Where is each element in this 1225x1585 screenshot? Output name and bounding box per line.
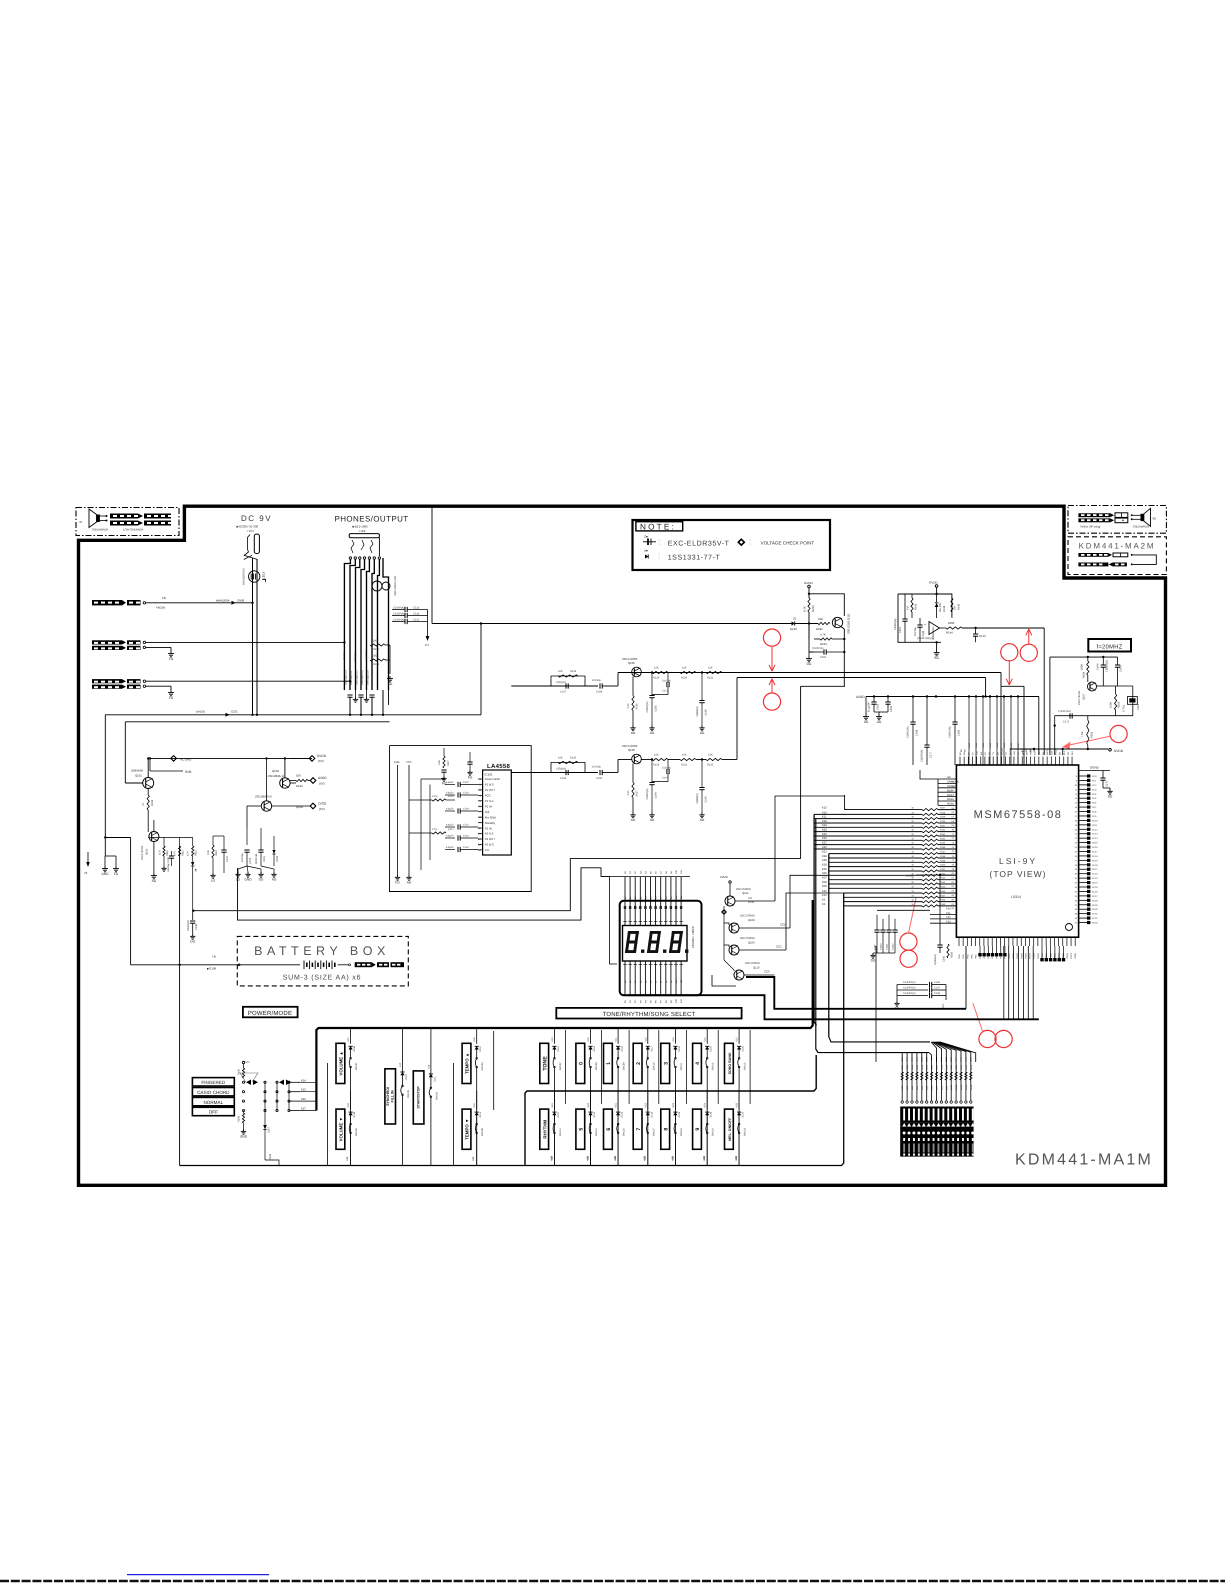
svg-text:10K: 10K — [558, 757, 563, 760]
key switch SW115 (5) — [576, 1109, 585, 1149]
svg-text:GVDD: GVDD — [804, 581, 814, 585]
IC LA4558 body — [483, 770, 512, 855]
svg-text:C151: C151 — [975, 742, 978, 748]
wire key feeder — [658, 1030, 660, 1104]
svg-text:R158: R158 — [940, 855, 946, 858]
cap C171 bridge — [667, 673, 669, 683]
svg-text:FINGERED: FINGERED — [201, 1080, 225, 1085]
wire K10 — [814, 813, 922, 815]
svg-text:R111: R111 — [182, 850, 185, 856]
schematic border frame — [79, 506, 1166, 1185]
resistor R129 — [652, 758, 668, 760]
svg-text:MD2: MD2 — [947, 798, 953, 801]
transistor Q103 — [280, 778, 290, 788]
caps C313 C314 C315 — [392, 609, 405, 611]
svg-text:SW110: SW110 — [652, 1062, 655, 1070]
svg-text:C(UHF0(A): C(UHF0(A) — [903, 992, 916, 995]
svg-text:VOLUME ▼: VOLUME ▼ — [339, 1117, 344, 1141]
svg-text:FG: FG — [114, 872, 119, 876]
svg-text:KO4: KO4 — [1092, 793, 1097, 796]
svg-text:PACE#: PACE# — [947, 785, 956, 788]
wire mid rail — [148, 837, 193, 839]
svg-text:KO21: KO21 — [1092, 868, 1098, 871]
svg-text:R166: R166 — [940, 890, 946, 893]
svg-text:P1 IN: P1 IN — [485, 804, 492, 808]
svg-text:K28: K28 — [822, 855, 827, 858]
wire speaker loop — [1133, 555, 1156, 565]
svg-text:R134: R134 — [269, 1153, 272, 1160]
svg-text:D109: D109 — [353, 1111, 356, 1117]
wire B display feed — [238, 868, 610, 920]
key switch SW109 (1) — [604, 1043, 613, 1083]
svg-text:SUM-3 (SIZE AA) x6: SUM-3 (SIZE AA) x6 — [283, 974, 362, 982]
top feeder labels — [968, 695, 970, 697]
svg-text:D133: D133 — [790, 627, 797, 631]
cap C158 — [701, 673, 703, 701]
svg-text:Yellow (SP plug): Yellow (SP plug) — [1080, 525, 1100, 529]
terminal GVDD reset — [935, 585, 938, 588]
svg-text:8.2K: 8.2K — [803, 606, 807, 612]
svg-text:10K: 10K — [558, 670, 563, 673]
svg-text:C315: C315 — [413, 618, 420, 621]
terminal AVDD — [310, 778, 316, 784]
svg-text:4.7K: 4.7K — [187, 851, 190, 856]
svg-text:4.7K: 4.7K — [820, 633, 826, 637]
svg-text:Q108: Q108 — [748, 919, 755, 922]
diode D107 — [264, 1111, 266, 1126]
cap C251 — [873, 697, 875, 703]
svg-text:KO31: KO31 — [1092, 913, 1098, 916]
wire display bottom bus — [628, 995, 1039, 1019]
svg-text:KE5: KE5 — [736, 1102, 739, 1107]
svg-text:Q109: Q109 — [748, 942, 755, 945]
svg-text:KO18: KO18 — [1092, 855, 1098, 858]
cap C170b — [1102, 771, 1104, 779]
svg-text:D108: D108 — [353, 1045, 356, 1051]
svg-text:C167: C167 — [934, 987, 941, 990]
svg-text:C(UHF0(A): C(UHF0(A) — [903, 987, 916, 990]
phone line caps to rail — [347, 694, 352, 696]
svg-text:R142: R142 — [915, 603, 918, 610]
svg-text:D111: D111 — [433, 1076, 436, 1082]
connector resistor array — [901, 1057, 903, 1101]
svg-text:L101: L101 — [262, 572, 266, 579]
resistor R132 — [706, 671, 722, 673]
resistor bias — [632, 783, 634, 798]
key switch SW111 (3) — [661, 1043, 670, 1083]
svg-text:C133: C133 — [463, 835, 469, 838]
ground CN2 — [170, 651, 172, 654]
svg-text:2SC1740SS: 2SC1740SS — [1078, 690, 1081, 705]
svg-text:BY(S)GL: BY(S)GL — [343, 650, 346, 660]
svg-text:2SD1858G,R: 2SD1858G,R — [255, 795, 272, 799]
display face — [623, 926, 688, 962]
jack contact circles — [349, 557, 351, 559]
svg-text:180K: 180K — [1081, 664, 1084, 670]
svg-text:X´TAL: X´TAL — [1123, 704, 1126, 712]
svg-text:6.8μ50: 6.8μ50 — [446, 846, 454, 849]
svg-text:BOW(S)GL: BOW(S)GL — [354, 649, 357, 662]
svg-text:C100P(A): C100P(A) — [393, 606, 405, 609]
transistor Q111 — [832, 617, 842, 627]
svg-text:C172: C172 — [1063, 721, 1070, 724]
wire CN06 to DC line — [146, 602, 253, 604]
svg-text:K27: K27 — [822, 842, 827, 845]
grounds LG GND DG AG — [237, 872, 239, 874]
feedback R129 C137 stage1 — [551, 676, 585, 686]
svg-text:6.8μ50: 6.8μ50 — [446, 824, 454, 827]
svg-text:K10: K10 — [551, 1037, 554, 1042]
terminal DVDD — [309, 756, 315, 762]
svg-text:R223: R223 — [820, 642, 827, 646]
svg-text:7.5K: 7.5K — [1081, 731, 1084, 737]
svg-text:AG: AG — [631, 818, 636, 822]
svg-text:C206: C206 — [820, 656, 827, 659]
svg-text:C170: C170 — [662, 777, 668, 780]
svg-text:K13: K13 — [672, 1037, 675, 1042]
svg-text:GVDD: GVDD — [929, 581, 939, 585]
svg-text:R169: R169 — [940, 903, 946, 906]
wire K17 — [814, 844, 922, 846]
check point circle (opamp wire) — [1020, 644, 1037, 661]
svg-text:C190: C190 — [596, 777, 603, 780]
IC bottom long pins to bus2 — [1003, 946, 1005, 1019]
svg-text:K19: K19 — [822, 824, 827, 827]
IC left upper pins — [938, 778, 956, 780]
key switch SW114 (RHYTHM) — [540, 1109, 549, 1149]
svg-text:KO8: KO8 — [1092, 811, 1097, 814]
svg-text:CASIO CHORD: CASIO CHORD — [197, 1090, 230, 1095]
wire top pin feeders — [968, 697, 970, 766]
cap C164 — [1117, 657, 1119, 665]
connector CN (speaker leads) — [110, 514, 138, 519]
svg-text:C■: C■ — [644, 535, 648, 539]
terminal CVC — [242, 1061, 244, 1063]
svg-text:AG: AG — [407, 880, 412, 884]
svg-text:+B: +B — [212, 955, 216, 959]
svg-text:R195: R195 — [238, 1068, 241, 1075]
svg-text:K08: K08 — [472, 1156, 475, 1161]
wire rotary verticals — [276, 1082, 278, 1110]
svg-text:R109: R109 — [373, 663, 380, 666]
svg-text:K16: K16 — [427, 1064, 430, 1069]
svg-text:R210: R210 — [901, 1064, 904, 1070]
svg-text:R127: R127 — [636, 790, 639, 797]
svg-text:AG: AG — [700, 731, 705, 735]
wire fan to grounds — [238, 866, 247, 872]
svg-text:DA(19): DA(19) — [196, 710, 205, 714]
cap C158 — [701, 760, 703, 788]
svg-text:2.2K: 2.2K — [627, 703, 630, 708]
svg-text:DC 9V: DC 9V — [241, 514, 272, 523]
wire bottom key bus — [180, 1159, 844, 1166]
svg-text:D127: D127 — [742, 1111, 745, 1117]
svg-text:NOTE:: NOTE: — [640, 523, 676, 532]
svg-text:D126: D126 — [710, 1111, 713, 1117]
svg-text:SW116: SW116 — [623, 1128, 626, 1136]
svg-text:K11: K11 — [615, 1037, 618, 1042]
svg-text:K09: K09 — [586, 1155, 589, 1160]
svg-text:C123: C123 — [463, 792, 469, 795]
svg-text:470μ: 470μ — [432, 795, 438, 798]
svg-text:PACE3: PACE3 — [1009, 747, 1012, 755]
svg-text:KO1: KO1 — [1092, 779, 1097, 782]
connector row 1 — [1078, 553, 1108, 557]
svg-text:R132: R132 — [707, 677, 714, 680]
switch position OFF — [192, 1107, 234, 1115]
svg-text:R145: R145 — [296, 784, 303, 788]
svg-text:C(471B): C(471B) — [662, 680, 671, 683]
svg-text:C1310: C1310 — [880, 943, 883, 950]
svg-text:Q105: Q105 — [628, 661, 635, 665]
svg-text:KE2: KE2 — [644, 1102, 647, 1107]
svg-text:AG: AG — [272, 877, 277, 881]
svg-text:Power GND: Power GND — [485, 777, 500, 781]
svg-text:R120: R120 — [448, 795, 454, 798]
display top pins — [624, 877, 626, 926]
check point circles (IC left) — [900, 933, 917, 950]
svg-text:K12: K12 — [736, 1037, 739, 1042]
svg-text:SUB: SUB — [394, 761, 400, 764]
wire bus1 riser — [965, 946, 967, 1009]
wire K16 — [814, 839, 922, 841]
wire aux feeder — [493, 1031, 495, 1110]
wire K20 — [829, 853, 922, 855]
svg-text:K23: K23 — [822, 894, 827, 897]
resistor R204 1M — [1087, 661, 1089, 675]
svg-text:LVDD: LVDD — [720, 875, 729, 879]
svg-text:FB: FB — [162, 596, 166, 600]
wire stage2 base — [617, 760, 619, 773]
svg-text:SQUAWKER: SQUAWKER — [1133, 525, 1149, 529]
svg-text:P26S: P26S — [1066, 953, 1069, 959]
svg-text:KO22: KO22 — [1092, 873, 1098, 876]
svg-text:CC3: CC3 — [764, 970, 770, 974]
svg-text:220Ω: 220Ω — [371, 640, 377, 643]
wire net to Q111 base — [432, 623, 792, 625]
wire K21 — [829, 857, 922, 859]
svg-text:K3: K3 — [822, 903, 826, 906]
note electrolytic symbol — [643, 541, 656, 543]
svg-text:Q102: Q102 — [146, 848, 149, 855]
svg-text:Out: Out — [485, 810, 490, 814]
svg-text:0: 0 — [579, 1062, 585, 1065]
svg-text:K17: K17 — [347, 1037, 350, 1042]
svg-text:R214: R214 — [921, 1064, 924, 1070]
svg-text:R165: R165 — [940, 885, 946, 888]
svg-text:R131: R131 — [681, 764, 688, 767]
svg-text:D1: D1 — [793, 617, 797, 621]
svg-text:P28S: P28S — [1074, 953, 1077, 959]
check diamond Q112 — [722, 910, 726, 914]
svg-text:P20: P20 — [946, 908, 951, 911]
svg-text::: : — [659, 541, 660, 546]
cap C201 — [902, 618, 907, 620]
wire osc bottom — [1054, 716, 1056, 726]
transistor Q109 — [729, 945, 739, 955]
svg-text:Standby: Standby — [485, 821, 496, 825]
svg-text:CC1: CC1 — [780, 923, 786, 927]
svg-text:9: 9 — [695, 1128, 701, 1131]
svg-text:R223: R223 — [965, 1064, 968, 1070]
svg-text:K25: K25 — [822, 833, 827, 836]
svg-text:TEMPO ▲: TEMPO ▲ — [465, 1053, 470, 1074]
key switch SW105 (TEMPO &#9650;) — [462, 1043, 471, 1083]
transistor Q102 — [149, 832, 159, 842]
svg-text:DG: DG — [807, 662, 812, 666]
note check diamond — [738, 539, 744, 545]
resistor R107 — [370, 644, 385, 646]
diode D106 — [191, 862, 194, 866]
svg-text:16V100μ: 16V100μ — [365, 650, 368, 660]
svg-text:K10: K10 — [822, 811, 827, 814]
svg-text:KO6: KO6 — [1092, 802, 1097, 805]
transistor Q108 — [729, 923, 739, 933]
svg-text:P20S: P20S — [1041, 953, 1044, 959]
svg-text:C(471B): C(471B) — [662, 767, 671, 770]
wire KI2 — [844, 901, 922, 903]
fan2 drops — [901, 1053, 903, 1062]
wire fan2 to connector — [816, 1049, 929, 1053]
svg-text:SDP-#2903 L103: SDP-#2903 L103 — [394, 576, 397, 596]
transistor Q101 — [143, 778, 154, 789]
wire K18 — [814, 848, 922, 850]
svg-text:KO12: KO12 — [1092, 828, 1098, 831]
key switch SW117 (7) — [633, 1109, 642, 1149]
svg-text:R129: R129 — [570, 670, 577, 673]
key switch SW116 (6) — [604, 1109, 613, 1149]
transistor Q110 — [734, 970, 744, 980]
svg-text:R150: R150 — [940, 820, 946, 823]
wire stage1 input — [511, 685, 598, 687]
wire right lower pin drop — [875, 946, 877, 1062]
svg-text:D122: D122 — [593, 1111, 596, 1117]
svg-text:LG: LG — [211, 878, 216, 882]
wire key feeder — [601, 1030, 603, 1104]
resistor R109 — [370, 659, 385, 661]
svg-text:VOLUME ▲: VOLUME ▲ — [339, 1051, 344, 1075]
check leader — [973, 1003, 983, 1033]
connector CN06 (speed back) — [92, 600, 122, 605]
svg-text:-: - — [924, 631, 925, 635]
wire KI3 — [844, 905, 922, 907]
svg-text:VCC: VCC — [406, 761, 412, 764]
svg-text:SW105: SW105 — [481, 1062, 484, 1071]
wire thick key bus top — [316, 900, 812, 1111]
svg-text:SW102: SW102 — [355, 1128, 358, 1137]
svg-text:V.C.: V.C. — [485, 848, 490, 852]
key switch SW113 (SONG BANK) — [725, 1043, 734, 1083]
key switch SW103 (SYNCHRO/FILL IN) — [385, 1069, 396, 1124]
wire volume feeder — [327, 1063, 329, 1166]
svg-text:C330P(A): C330P(A) — [646, 788, 649, 799]
svg-text:D125: D125 — [678, 1111, 681, 1117]
svg-text:LOW SPEAKER: LOW SPEAKER — [123, 528, 143, 532]
IC bottom right pins group — [1041, 946, 1043, 958]
svg-text:KDM441-MA2M: KDM441-MA2M — [1079, 542, 1156, 551]
svg-text:C122: C122 — [463, 781, 469, 784]
caps C166 C167 C168b — [897, 984, 928, 986]
svg-text:LED201↓ L8029: LED201↓ L8029 — [691, 926, 695, 948]
svg-text:R129: R129 — [653, 764, 660, 767]
svg-text:SW111: SW111 — [680, 1062, 683, 1070]
svg-text:8: 8 — [663, 1128, 669, 1131]
svg-text:C313: C313 — [413, 606, 420, 609]
svg-text:DVDD: DVDD — [1114, 749, 1124, 753]
svg-text:C101: C101 — [231, 710, 238, 714]
svg-text:KO9: KO9 — [1092, 815, 1097, 818]
ground AVDD — [874, 712, 879, 714]
svg-text:RSTN: RSTN — [1046, 749, 1049, 755]
wire K14 — [814, 831, 922, 833]
wire CN3 to phones — [146, 680, 350, 682]
svg-text:K22: K22 — [822, 890, 827, 893]
wire K28 — [829, 887, 922, 889]
cap C177 — [926, 697, 928, 746]
svg-text:FB(105: FB(105 — [156, 606, 166, 610]
svg-text:R203: R203 — [1118, 701, 1121, 708]
svg-text:GND: GND — [240, 1134, 248, 1138]
keyboard matrix comb 2 — [828, 854, 830, 1037]
wire input feeds — [409, 799, 432, 801]
svg-text:MD3: MD3 — [947, 803, 953, 806]
svg-text:C220V(A): C220V(A) — [187, 920, 190, 931]
svg-text:C330P(A): C330P(A) — [646, 701, 649, 712]
wire R audio drop — [985, 678, 987, 697]
transistor Q105 — [632, 667, 642, 677]
svg-text:R112: R112 — [195, 850, 198, 856]
svg-text:D116: D116 — [621, 1046, 624, 1052]
feedback R129b C138 stage2 — [551, 763, 585, 773]
svg-text:C1311: C1311 — [886, 943, 889, 950]
svg-text:6: 6 — [606, 1128, 612, 1131]
svg-text:D213: D213 — [965, 1084, 968, 1090]
DC jack JK1 — [254, 534, 259, 553]
svg-text:SQUAWKER: SQUAWKER — [92, 528, 108, 532]
svg-text:PG: PG — [468, 775, 473, 779]
svg-text:1M: 1M — [954, 606, 957, 610]
cap C209 — [814, 651, 824, 653]
wire R223 4.7K — [814, 638, 820, 640]
ground Q111 — [808, 652, 810, 656]
transistor Q106 — [632, 754, 642, 764]
IC bottom pins — [958, 937, 960, 946]
check arrow up — [771, 679, 773, 693]
svg-text:KO19: KO19 — [1092, 859, 1098, 862]
resistor R130 — [680, 671, 696, 673]
svg-text:C(16V1A): C(16V1A) — [949, 726, 952, 738]
svg-text:3: 3 — [663, 1062, 669, 1065]
svg-text:R130: R130 — [681, 677, 688, 680]
wire reset loop — [898, 594, 952, 618]
svg-text:SW114: SW114 — [559, 1128, 562, 1136]
svg-text:P22: P22 — [946, 916, 951, 919]
svg-text:D114: D114 — [557, 1046, 560, 1052]
digit 1 — [625, 931, 639, 953]
svg-text:KE2: KE2 — [587, 1102, 590, 1107]
svg-text:6.8μ50: 6.8μ50 — [446, 808, 454, 811]
svg-text:C(16V1A): C(16V1A) — [907, 726, 910, 738]
svg-text:2: 2 — [636, 1062, 642, 1065]
svg-text:7: 7 — [636, 1128, 642, 1131]
svg-text:KO11: KO11 — [1092, 824, 1098, 827]
svg-text:LVDD: LVDD — [906, 874, 915, 878]
POWER/MODE box — [243, 1007, 298, 1018]
svg-text:K09: K09 — [671, 1155, 674, 1160]
ground phones — [389, 676, 391, 679]
svg-text:AG: AG — [650, 818, 655, 822]
svg-text:C150: C150 — [968, 742, 971, 748]
